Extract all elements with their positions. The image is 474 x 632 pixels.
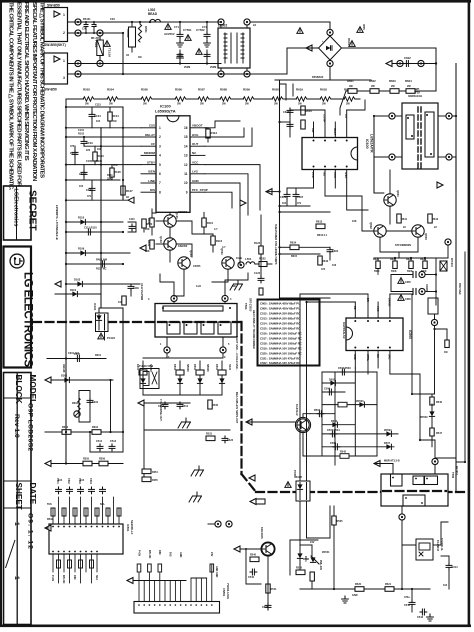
svg-text:MBR-9T3.3-B: MBR-9T3.3-B [384,460,400,463]
svg-text:5: 5 [159,163,161,167]
capacitor C112 [96,258,107,271]
arrow net pfc [240,200,246,206]
component value labels q cluster [145,211,242,288]
svg-text:33K: 33K [107,178,112,181]
resistor R620 [272,88,283,106]
svg-text:VCC: VCC [192,160,199,164]
wire cap bank loop [390,275,392,292]
resistor R112 [205,128,217,142]
resistor R613 [316,220,325,229]
svg-text:INV-ON: INV-ON [62,575,65,584]
svg-text:400V: 400V [362,24,366,30]
svg-text:C109: C109 [133,287,139,290]
svg-text:HVG: HVG [192,133,199,137]
svg-text:T500: T500 [451,472,455,479]
svg-text:4W: 4W [349,85,353,88]
wire right column [412,302,435,447]
relay RL501 [139,364,159,389]
svg-text:Q601: Q601 [396,190,400,197]
svg-text:KRC102S: KRC102S [260,527,264,539]
wire kia arrow [246,419,252,425]
transistor Q101 [164,212,179,227]
resistor R621 [373,258,380,275]
diode cluster left [304,545,322,589]
wire lower right rail [280,297,331,299]
mosfet Q603 [412,225,428,240]
svg-text:SDA: SDA [95,575,98,580]
svg-text:C514: C514 [182,405,189,408]
svg-text:FB: FB [353,306,357,310]
resistor R604 [301,106,312,129]
svg-text:C540: C540 [248,576,255,579]
svg-text:R503: R503 [83,88,90,92]
capacitor C523 [222,436,234,443]
svg-text:C512: C512 [96,440,103,443]
resistor R603 [389,79,399,93]
svg-text:C105: C105 [86,160,93,163]
wire t500 top feed [434,440,436,459]
resistor boxes above connector [137,564,213,572]
svg-text:IC501: IC501 [126,524,130,532]
svg-text:2: 2 [159,135,161,139]
svg-text:KSE350: KSE350 [178,245,188,248]
svg-text:R541: R541 [271,588,278,591]
junction tp pair [215,521,221,527]
wire rail y464 [45,463,123,465]
svg-text:GND: GND [344,172,348,178]
svg-text:MODEL: MODEL [28,375,37,405]
resistor R503 [83,88,94,106]
svg-text:C508: C508 [330,442,337,445]
resistor R624 [420,258,427,273]
connector pin tp [75,30,81,36]
capacitor CY501 with ground [177,21,192,65]
svg-text:SUB-POWER STR-A6069H SMPS: SUB-POWER STR-A6069H SMPS [274,224,278,265]
svg-text:9: 9 [186,190,188,194]
resistor R547 [430,428,443,436]
pin dots ic500 [354,320,391,349]
wire ladder rung y127.8 [66,127,141,129]
svg-text:CN501: CN501 [222,588,226,597]
capacitor bank C514 [177,402,189,409]
resistor R103 [93,146,104,164]
svg-text:R530: R530 [212,404,219,407]
svg-text:2: 2 [63,31,65,35]
dashed isolation line vertical [240,322,242,474]
wire sec top [143,357,222,359]
svg-text:STF13NM60N: STF13NM60N [395,244,411,247]
resistor R619 [296,88,307,106]
svg-text:1M: 1M [113,120,116,123]
resistor R541 [266,584,277,593]
component value labels top [83,18,324,79]
svg-text:NTC601: NTC601 [450,258,453,268]
wire bridge bottom down [275,67,330,80]
svg-text:R507: R507 [198,88,205,92]
svg-text:R540: R540 [250,554,257,557]
svg-text:2W: 2W [298,103,302,106]
svg-text:R102: R102 [78,133,85,136]
svg-text:104: 104 [79,185,84,188]
svg-text:R521: R521 [385,583,392,586]
junction tp [238,262,244,268]
junction dots lower left [65,357,124,464]
svg-text:CY2: CY2 [202,26,207,29]
arrow net y380 [45,377,51,383]
svg-text:AS-H VSI-PWM: AS-H VSI-PWM [140,283,143,300]
wire q601 [389,170,391,224]
svg-text:103: 103 [118,301,123,304]
capacitor CX2 [92,21,97,34]
svg-text:C507 R544: C507 R544 [327,429,340,432]
svg-text:11: 11 [184,172,188,176]
svg-text:D505: D505 [329,379,336,382]
capacitor C605 [283,108,293,129]
loop rect R302 C302 [72,391,99,423]
svg-text:ZCD: ZCD [311,172,315,178]
svg-text:R501: R501 [144,26,148,33]
svg-text:R507: R507 [314,409,321,412]
connector SW-B50 P801 [44,4,68,48]
arrow net y464 [45,461,51,467]
arrow net right [437,182,443,188]
capacitor CX1 [82,21,88,34]
svg-text:PML-24V: PML-24V [319,560,322,571]
svg-text:R602: R602 [369,79,376,83]
resistor R128 [118,296,126,305]
svg-text:Q102: Q102 [159,236,163,243]
dashes through T500 [383,490,446,492]
junction tp [418,60,424,66]
warning triangle AC [165,24,171,30]
svg-text:C533: C533 [78,478,81,484]
component value labels bottom right [296,476,448,599]
capacitor C507 [327,429,340,437]
diode D502 cluster [173,361,189,395]
svg-text:DAP0SALSZ: DAP0SALSZ [342,322,346,339]
svg-text:14: 14 [184,144,188,148]
svg-text:R604: R604 [306,109,313,113]
wire sec rails [143,394,222,396]
svg-text:LVG: LVG [192,170,199,174]
wire rung y403 [138,402,190,404]
wire under rail y212 [280,211,331,213]
svg-text:1: 1 [63,59,65,63]
svg-text:IC101: IC101 [93,303,97,311]
svg-text:1N4148: 1N4148 [62,364,65,373]
svg-text:5VS: 5VS [169,552,172,557]
svg-text:2W: 2W [407,85,411,88]
wire pc500 bottom rail [300,544,312,546]
zener ZD500 [420,404,435,428]
connector pins up [139,565,212,602]
svg-text:C541: C541 [262,606,269,609]
resistor R255 [142,477,151,482]
wire bottom rail y589 [300,588,430,590]
capacitor C314 [441,556,458,589]
pin dots ic600 [313,140,348,168]
svg-text:1: 1 [159,126,161,130]
svg-text:C543: C543 [417,616,424,619]
svg-text:C532: C532 [67,478,70,484]
transformer LF601 [402,87,438,169]
svg-text:7: 7 [159,181,161,185]
capacitor C604 [327,247,339,260]
svg-text:R109: R109 [78,247,85,251]
resistor R306 [99,458,108,466]
svg-text:PFC_STOP: PFC_STOP [192,188,208,192]
svg-text:10K: 10K [97,148,102,151]
svg-text:O9P LCD26S2: O9P LCD26S2 [26,403,33,452]
IC100 pins right [190,128,205,192]
capacitor C606 bulk [391,288,436,301]
svg-text:DIM: DIM [158,550,161,554]
svg-text:450V 68uF: 450V 68uF [458,283,461,295]
fuse F501 [94,30,112,67]
op-amp IC100 L6599D [155,104,190,213]
diode D503 cluster [193,361,209,395]
svg-text:3: 3 [159,144,161,148]
svg-text:2W: 2W [109,103,113,106]
svg-text:ZD503: ZD503 [356,400,364,403]
wire AC N1 [68,32,124,34]
labels under IC501 [51,575,98,584]
resistor R509 [243,88,254,106]
svg-text:C606: C606 [405,298,411,301]
connector pin tp [75,71,81,77]
svg-text:817B: 817B [296,476,302,479]
svg-text:CX: CX [82,27,86,31]
svg-text:C101: C101 [78,129,85,132]
svg-text:R504: R504 [107,88,114,92]
svg-text:Q602: Q602 [369,222,373,229]
capacitor C508 [330,442,340,450]
ground q500 [342,596,349,603]
svg-text:R118: R118 [78,216,85,220]
capacitor C104 [89,107,101,128]
resistor R501 [138,21,148,42]
wire y247 [280,246,291,248]
dashed isolation diagonal [242,474,257,492]
svg-text:R616 0.1: R616 0.1 [317,234,328,237]
svg-text:1: 1 [63,13,65,17]
capacitor bank C512 [158,402,168,409]
svg-text:5VS: 5VS [47,503,52,506]
wire AC L2 [68,63,222,65]
svg-text:CN600: CN600 [425,284,428,292]
svg-text:C534: C534 [89,478,92,484]
capacitor C108 [86,180,95,200]
svg-text:C104: C104 [94,114,101,118]
svg-text:MF-ZR: MF-ZR [91,37,99,40]
svg-text:R546: R546 [436,401,443,404]
wire under rail y206 [280,205,311,207]
LG electronics box [4,247,34,368]
op-amp IC600 L6562A [302,134,374,170]
wire PFC_STOP down [205,192,232,208]
transistor Q500 [295,404,311,433]
wire totem mid [176,221,213,234]
wire ladder rung y107 [66,106,122,108]
svg-text:R121: R121 [147,240,151,247]
ground bottom right [427,614,434,621]
svg-text:C607: C607 [297,195,304,199]
svg-text:4: 4 [159,154,161,158]
svg-text:C542: C542 [404,604,411,607]
svg-text:3: 3 [63,76,65,80]
svg-text:252M: 252M [184,66,190,69]
diode D102 [78,247,85,256]
svg-text:2W: 2W [143,103,147,106]
resistor R121 [147,240,154,249]
svg-text:COMP: COMP [323,114,327,123]
resistor boxes on IC501 top pins [51,508,121,516]
wire AC L1 [68,21,222,23]
svg-text:C519 : SAMWHA 10V 1000uF RC: C519 : SAMWHA 10V 1000uF RC [260,347,303,351]
svg-text:4.7: 4.7 [222,246,226,249]
svg-text:2W: 2W [346,103,350,106]
svg-text:SRT-Z3023: SRT-Z3023 [249,298,253,312]
inductor L502 bead [148,8,160,23]
svg-text:1K: 1K [126,196,129,199]
sidebar warning text [8,2,46,191]
transistor Q103 [178,250,193,269]
wire ladder rung y180 [66,179,120,181]
opto-coupler PC500 [293,470,310,501]
wire GND right [205,183,240,265]
svg-text:KSE350: KSE350 [178,211,188,214]
svg-text:C115: C115 [95,104,101,107]
svg-text:C111 R110: C111 R110 [84,226,97,230]
svg-text:C: C [95,24,97,28]
svg-text:DIS: DIS [150,188,155,192]
svg-text:C515 : SAMWHA 25V 680uF RC: C515 : SAMWHA 25V 680uF RC [260,327,301,331]
svg-text:AC250V: AC250V [164,32,175,36]
IC501 pins top [53,497,119,524]
svg-text:C518 : SAMWHA 10V 1000uF RC: C518 : SAMWHA 10V 1000uF RC [260,342,303,346]
svg-text:INV-ON: INV-ON [148,550,151,559]
svg-text:BR: BR [366,298,370,302]
svg-text:R618: R618 [320,88,327,92]
arrow net fb [384,460,400,463]
wire VBOOT up [205,121,240,128]
svg-text:C106: C106 [79,172,86,176]
svg-text:R545: R545 [340,451,347,454]
wire rail y380 [45,379,113,381]
wire left bus x66 [65,99,67,296]
wire top rail to right [275,79,371,81]
svg-text:R304: R304 [92,426,99,429]
resistor R610 [318,256,329,265]
svg-text:R107: R107 [126,189,133,193]
svg-text:104: 104 [96,120,101,123]
wire lf601 right pins [452,115,456,117]
svg-text:R620: R620 [272,88,279,92]
wire comp loop [290,110,325,137]
wire lf601 stubs [395,116,446,157]
svg-text:CTRL: CTRL [366,354,370,361]
model/block table [4,373,32,625]
svg-text:R509: R509 [243,88,250,92]
resistor R104 [108,107,119,128]
cluster right of q503 [290,540,318,575]
svg-text:SB560: SB560 [206,364,209,372]
wire q500 connections [303,414,310,456]
diode D104 [70,288,77,297]
svg-text:R506: R506 [175,88,182,92]
wire ic500 top feeds [307,302,356,462]
wire q503 down [267,556,269,610]
svg-text:O9. 1. 12: O9. 1. 12 [26,513,33,550]
component value labels ic501 [47,479,105,521]
svg-text:C103: C103 [86,141,93,145]
wire vertical x144 [143,403,145,480]
diode D507 [384,442,391,449]
svg-text:GND: GND [353,354,357,360]
junction dots bottom right [305,301,421,590]
capacitor C605 bulk [391,271,436,284]
svg-text:PC123: PC123 [107,336,115,340]
resistor network under q503 [245,548,261,584]
svg-text:C514 : SAMWHA 25V 680uF RC: C514 : SAMWHA 25V 680uF RC [260,322,301,326]
svg-text:2W: 2W [371,85,375,88]
junction tp feed [445,239,451,245]
svg-text:560K: 560K [374,271,380,273]
capacitor CY502 with ground [196,21,211,65]
svg-text:C506: C506 [324,388,331,391]
resistor R303 [62,426,71,434]
component value labels ladder [70,104,129,200]
svg-text:1-HOT GND ... 2-COLD GND ..: 1-HOT GND ... 2-COLD GND .. [235,336,238,371]
wire nested loop above ic600 [280,84,294,100]
resistor R617 [344,88,355,106]
arrow circle TP [74,411,80,417]
junction tp [397,60,403,66]
mosfet Q601 [384,190,400,206]
svg-text:L6562A/TR: L6562A/TR [370,134,374,153]
diode D504 cluster [215,361,231,395]
IC500 pins bottom [355,351,390,375]
wire to Q bases [156,220,164,222]
wire bus x279 [279,80,281,298]
component value labels pfc [282,202,437,271]
capacitor C542 [404,589,415,612]
svg-text:15: 15 [184,135,188,139]
dashed isolation line horizontal upper [33,321,95,323]
svg-text:1M: 1M [138,56,141,59]
svg-text:C503 R503: C503 R503 [338,367,351,370]
svg-text:47K: 47K [113,164,118,167]
op-amp IC501 [49,520,134,554]
svg-text:SS34: SS34 [228,364,231,371]
svg-text:C314: C314 [452,566,459,569]
resistor R601 [347,79,357,93]
svg-text:R301: R301 [95,354,102,357]
svg-text:D5SBA60: D5SBA60 [312,76,324,79]
capacitor C606 [280,188,290,206]
svg-text:GND: GND [179,552,182,558]
svg-text:R603: R603 [389,79,396,83]
wire ic500 to t500 [390,374,435,440]
svg-text:470u: 470u [404,596,410,599]
svg-text:CX2: CX2 [110,18,115,21]
IC600 pins top [314,110,347,138]
connector SW-B50 P802 [44,53,68,92]
svg-text:ZD500: ZD500 [420,416,428,419]
wire ladder rung y200 [66,192,141,200]
svg-text:2W: 2W [177,103,181,106]
arrow net mid [266,189,272,195]
